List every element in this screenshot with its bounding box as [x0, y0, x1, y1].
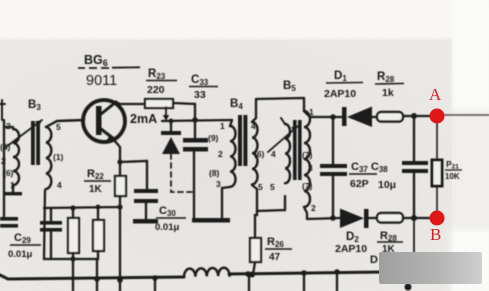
node junction (248,274) [245, 271, 251, 277]
svg-text:33: 33 [194, 89, 206, 101]
svg-text:1: 1 [220, 121, 225, 131]
wire top link B4-B5 [256, 98, 304, 99]
node junction (195,120) [192, 117, 198, 123]
wire A to P21 [436, 122, 438, 160]
diode D2 triangle [340, 209, 364, 229]
graybox watermark cover [379, 252, 482, 284]
right white strip top [452, 0, 489, 110]
wire stub below bus x120 [119, 279, 121, 291]
node junction (97,279) [94, 276, 100, 282]
ground bar under B3 pin1 [3, 192, 22, 195]
wire R2 top stub [97, 207, 99, 220]
svg-text:10K: 10K [445, 172, 460, 181]
wire stub blob below graybox [405, 284, 412, 291]
svg-text:2mA: 2mA [130, 112, 157, 126]
wire bus right segment [229, 272, 385, 274]
label D1 line [326, 82, 363, 85]
cropped part top-left edge [0, 100, 5, 120]
wire R28a to node [403, 115, 431, 117]
wire rail to right edge [443, 114, 489, 116]
wire bias row y207 [44, 207, 121, 208]
trimmer arrow through B3 [6, 120, 42, 147]
wire to B4 pin1 [230, 120, 232, 126]
transistor collector stroke [101, 102, 116, 114]
wire R2 column to bus [96, 259, 98, 280]
label P21 line [445, 169, 462, 171]
wire B3 pin5 to base [46, 120, 84, 127]
svg-text:62P: 62P [350, 178, 369, 190]
transformer B3 core [31, 121, 35, 165]
node junction (255,275) [249, 272, 255, 278]
label C30 line [156, 217, 186, 219]
transformer B5 core [293, 120, 297, 180]
wire diode bottom dashed [171, 154, 193, 192]
transistor base bar [96, 106, 102, 135]
node junction (155,278) [152, 275, 158, 281]
svg-text:4: 4 [251, 121, 256, 131]
transformer B5 right coil [304, 111, 310, 207]
wire stub below bus x79 [72, 279, 74, 291]
wire stub below bus x248 [248, 274, 250, 291]
resistor R bias upper (box) [68, 218, 79, 253]
node junction (98,207) [96, 205, 101, 210]
node junction (171,121) [169, 119, 174, 124]
wire diode top stem [170, 121, 172, 131]
svg-text:5: 5 [270, 182, 275, 192]
svg-text:(7): (7) [302, 150, 313, 160]
svg-text:(7): (7) [302, 181, 313, 191]
svg-text:1: 1 [10, 180, 15, 190]
node junction (414,116) [411, 113, 417, 119]
node junction (120,162) [117, 159, 122, 164]
svg-text:2AP10: 2AP10 [335, 243, 367, 255]
svg-text:220: 220 [147, 84, 165, 96]
transistor BG6 circle [83, 100, 125, 142]
diode D2 bar [364, 209, 369, 228]
node junction (414,218) [411, 215, 417, 221]
diode D1 triangle [347, 107, 372, 128]
wire left edge vertical [3, 120, 5, 217]
svg-text:9011: 9011 [86, 73, 117, 89]
svg-text:0.01μ: 0.01μ [8, 249, 32, 260]
svg-text:10μ: 10μ [378, 179, 396, 191]
label R26 line [265, 248, 292, 250]
wire node B down to graybox [413, 218, 415, 253]
svg-text:2: 2 [6, 121, 11, 131]
svg-text:4: 4 [57, 180, 62, 190]
wire R top stub [72, 208, 74, 218]
capacitor C29 plates (left edge) [0, 217, 18, 221]
wire C38 stem bottom [413, 173, 415, 218]
right white strip bottom [449, 230, 489, 291]
diode AGC triangle [162, 137, 180, 154]
node junction (73,208) [70, 205, 75, 210]
transformer B4 left coil [230, 126, 236, 187]
capacitor C37 plates [320, 164, 347, 168]
wire D1 to R28a [372, 116, 377, 118]
svg-text:2: 2 [218, 149, 223, 159]
svg-text:(8): (8) [209, 168, 220, 178]
wire B5 left top stub [281, 118, 285, 124]
svg-text:D: D [370, 254, 378, 266]
wire stub below bus x155 [154, 278, 156, 291]
svg-text:1K: 1K [89, 184, 103, 195]
wire P21 to B [436, 186, 438, 214]
wire B3 left coil top [4, 126, 13, 128]
wire C37 stem bottom [332, 176, 334, 218]
wire stub below bus x337 [336, 272, 338, 291]
wire emitter tap to C30 [120, 161, 147, 189]
svg-text:4: 4 [271, 149, 276, 159]
ground bar under B4 tank [192, 218, 230, 223]
svg-text:5: 5 [258, 182, 263, 192]
node junction (120,280) [117, 277, 123, 283]
svg-text:(6): (6) [254, 149, 265, 159]
label R23 line [146, 80, 177, 82]
svg-text:3: 3 [216, 179, 221, 189]
wire C38 stem top [413, 116, 415, 162]
transformer B3 right coil [46, 127, 51, 189]
svg-text:1k: 1k [382, 87, 394, 99]
wire bus left segment [0, 275, 184, 279]
emitter arrowhead [107, 134, 115, 141]
wire row y121 [162, 120, 232, 121]
top white strip [0, 0, 489, 40]
wire B5 right top stub [303, 98, 305, 111]
wire collector to R23 [116, 102, 145, 104]
wire C37 stem top [332, 117, 334, 165]
svg-text:(9): (9) [208, 133, 219, 143]
transformer B4 right coil [252, 122, 258, 184]
wire B5 pin2 down to D2 rail [304, 207, 307, 219]
node junction (73,259) [70, 256, 75, 261]
node junction (333,218) [330, 215, 336, 221]
wire B3 pin1 down [12, 185, 14, 193]
transformer B3 left coil [13, 129, 19, 185]
resistor R bias second (box) [93, 220, 104, 251]
capacitor bypass plates near C29 [50, 208, 52, 221]
potentiometer P21 box [432, 160, 442, 186]
node B red dot [430, 211, 445, 226]
transformer B4 core [238, 115, 242, 166]
label C29 line [10, 244, 41, 246]
transistor emitter stroke [101, 129, 114, 139]
resistor R22 box [115, 176, 126, 196]
inductor bus coil [184, 268, 230, 277]
wire B5 left bottom down [257, 196, 285, 211]
capacitor C33 stem top [194, 120, 196, 138]
capacitor C33 plates [183, 138, 208, 143]
label C37 line [349, 173, 377, 175]
svg-text:47: 47 [269, 252, 281, 263]
resistor R23 box [145, 99, 173, 108]
wire stub below bus x304 [303, 273, 305, 291]
label R28 top line [375, 83, 404, 86]
label BG6 underline with dashes [78, 66, 140, 69]
resistor R28 bottom box [377, 213, 403, 223]
trimmer arrow through B5 [268, 126, 298, 152]
node junction (304,273) [301, 270, 307, 276]
resistor R26 box [250, 238, 261, 262]
wire R23 to corner [173, 103, 195, 120]
wire D2 to R28b [368, 217, 377, 219]
svg-text:3: 3 [308, 163, 313, 173]
wire stub below bus x97 [96, 279, 98, 291]
svg-text:2: 2 [1, 156, 6, 166]
wire top rail left [304, 111, 343, 117]
capacitor C30 plates [134, 189, 158, 193]
svg-text:A: A [429, 85, 442, 104]
wire B4 right top to box line [252, 99, 256, 122]
label R22 line [84, 180, 111, 182]
ground bar under C30 [133, 219, 158, 224]
label C33 line [189, 86, 218, 88]
wire B3 pin4 down [44, 190, 73, 259]
capacitor C38 plates [402, 161, 428, 165]
svg-text:0.01μ: 0.01μ [155, 222, 179, 233]
diode AGC bar (cathode) [161, 131, 181, 135]
wire bottom rail left [308, 218, 340, 219]
wire B4 pin3 stem [221, 188, 223, 218]
node junction (120,207) [117, 204, 122, 209]
svg-text:2AP10: 2AP10 [324, 88, 356, 100]
svg-text:1: 1 [309, 107, 314, 117]
node A red dot [430, 109, 445, 124]
wire B4 right bottom down [252, 185, 257, 238]
label R28 bottom line [377, 241, 403, 243]
current arrow 2mA [165, 107, 167, 118]
svg-text:B: B [430, 225, 441, 244]
B4 left coil bottom hook [222, 187, 230, 188]
svg-text:(1): (1) [53, 152, 64, 162]
wire R2 bottom stub [73, 251, 98, 259]
node junction (337,272) [334, 269, 340, 275]
transformer B5 left coil [285, 124, 290, 183]
wire R bottom to bus [72, 253, 74, 280]
diode D1 bar [342, 107, 347, 126]
wire R26 bottom to bus [253, 262, 255, 275]
wire emitter down [114, 140, 120, 176]
svg-text:(6): (6) [3, 168, 14, 178]
wire R28b to node B [403, 217, 433, 219]
svg-text:5: 5 [56, 122, 61, 132]
wire C33 bottom stem [193, 151, 195, 219]
wire C30 bottom stem [145, 203, 147, 219]
svg-text:2: 2 [311, 203, 316, 213]
svg-text:(4): (4) [0, 142, 11, 152]
wire R22 bottom to bus [119, 196, 121, 280]
resistor R28 top box [377, 112, 403, 122]
node junction (333,117) [330, 114, 336, 120]
